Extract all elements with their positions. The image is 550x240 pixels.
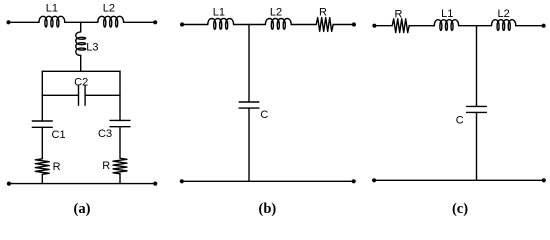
svg-text:L2: L2 [270, 7, 282, 19]
node: circuit (c) top-left terminal [372, 24, 376, 28]
wire (a): right vertical, box top to C3 [119, 71, 121, 120]
wire (a): box top horizontal [42, 70, 120, 72]
wire (a): right R to bottom rail [119, 174, 121, 184]
svg-text:C: C [260, 109, 268, 121]
capacitor C (b) plates [239, 102, 259, 108]
svg-text:L1: L1 [441, 8, 453, 20]
inductor L2 (c) [492, 20, 516, 31]
node: circuit (a) top-right terminal [153, 20, 157, 24]
svg-text:L2: L2 [103, 3, 115, 15]
wire (c): L1 to L2 through junction [459, 25, 492, 27]
wire (c): bottom rail [374, 179, 544, 181]
wire (a): bottom rail [9, 183, 155, 185]
svg-text:(a): (a) [74, 201, 91, 217]
node: circuit (c) top-right terminal [542, 24, 546, 28]
capacitor C3 (a) plates [110, 120, 130, 126]
wire (c): terminal to R [374, 25, 392, 27]
wire (c): C to bottom rail [476, 112, 478, 180]
wire (a): top-left terminal to L1 [9, 21, 40, 23]
node: circuit (b) bottom-left terminal [180, 179, 184, 183]
wire (b): junction down to C [248, 25, 250, 103]
node: circuit (a) bottom-right terminal [153, 182, 157, 186]
node: circuit (b) top-right terminal [352, 22, 356, 26]
resistor R left (a, vertical) [35, 159, 49, 175]
inductor L2 (b) [265, 19, 291, 30]
node: circuit (c) bottom-right terminal [542, 178, 546, 182]
node: circuit (b) top-left terminal [180, 22, 184, 26]
wire (c): R to L1 [409, 25, 434, 27]
svg-text:R: R [395, 8, 403, 20]
wire (c): junction down to C [476, 26, 478, 107]
wire (a): C1 to left R [41, 127, 43, 159]
svg-text:R: R [102, 160, 110, 172]
capacitor C (c) plates [467, 106, 487, 112]
capacitor C2 (a) plates [79, 85, 86, 105]
wire (b): L1 to L2 through junction [234, 24, 266, 26]
svg-text:C2: C2 [74, 77, 88, 89]
wire (a): left R to bottom rail [41, 174, 43, 183]
svg-text:L1: L1 [46, 3, 58, 15]
wire (b): R to top-right terminal [333, 24, 354, 26]
wire (a): junction down to L3 [80, 22, 82, 32]
wire (a): L2 to top-right terminal [124, 21, 156, 23]
node: circuit (a) bottom-left terminal [7, 182, 11, 186]
wire (b): C to bottom rail [248, 108, 250, 181]
node: circuit (c) bottom-left terminal [372, 178, 376, 182]
svg-text:C: C [456, 114, 464, 126]
node: circuit (b) bottom-right terminal [352, 179, 356, 183]
wire (a): C3 to right R [119, 127, 121, 159]
inductor L1 (b) [208, 19, 234, 30]
wire (a): L1 to L2 through top junction [65, 21, 98, 23]
svg-text:(b): (b) [259, 201, 277, 217]
inductor L2 (a) [98, 16, 124, 27]
wire (a): left vertical, box top to C1 [41, 71, 43, 121]
wire (a): C2 row right segment [85, 94, 120, 96]
wire (c): L2 to top-right terminal [516, 25, 544, 27]
wire (a): L3 to box top [80, 55, 82, 71]
inductor L1 (c) [434, 20, 458, 31]
svg-text:(c): (c) [452, 201, 468, 217]
wire (b): terminal to L1 [182, 24, 208, 26]
svg-text:L1: L1 [213, 7, 225, 19]
svg-text:R: R [53, 161, 61, 173]
svg-text:L2: L2 [497, 8, 509, 20]
wire (a): C2 row left segment [42, 94, 78, 96]
wire (b): bottom rail [182, 180, 354, 182]
svg-text:R: R [319, 7, 327, 19]
inductor L3 (a, vertical) [76, 32, 86, 56]
wire (b): L2 to R [291, 24, 316, 26]
node: circuit (a) top-left terminal [6, 20, 10, 24]
svg-text:L3: L3 [86, 41, 98, 53]
svg-text:C1: C1 [52, 129, 66, 141]
resistor R right (a, vertical) [113, 158, 127, 174]
capacitor C1 (a) plates [32, 121, 52, 127]
resistor R (b, horizontal) [316, 18, 333, 32]
svg-text:C3: C3 [98, 128, 112, 140]
inductor L1 (a) [39, 16, 65, 27]
resistor R (c, horizontal) [392, 19, 409, 33]
